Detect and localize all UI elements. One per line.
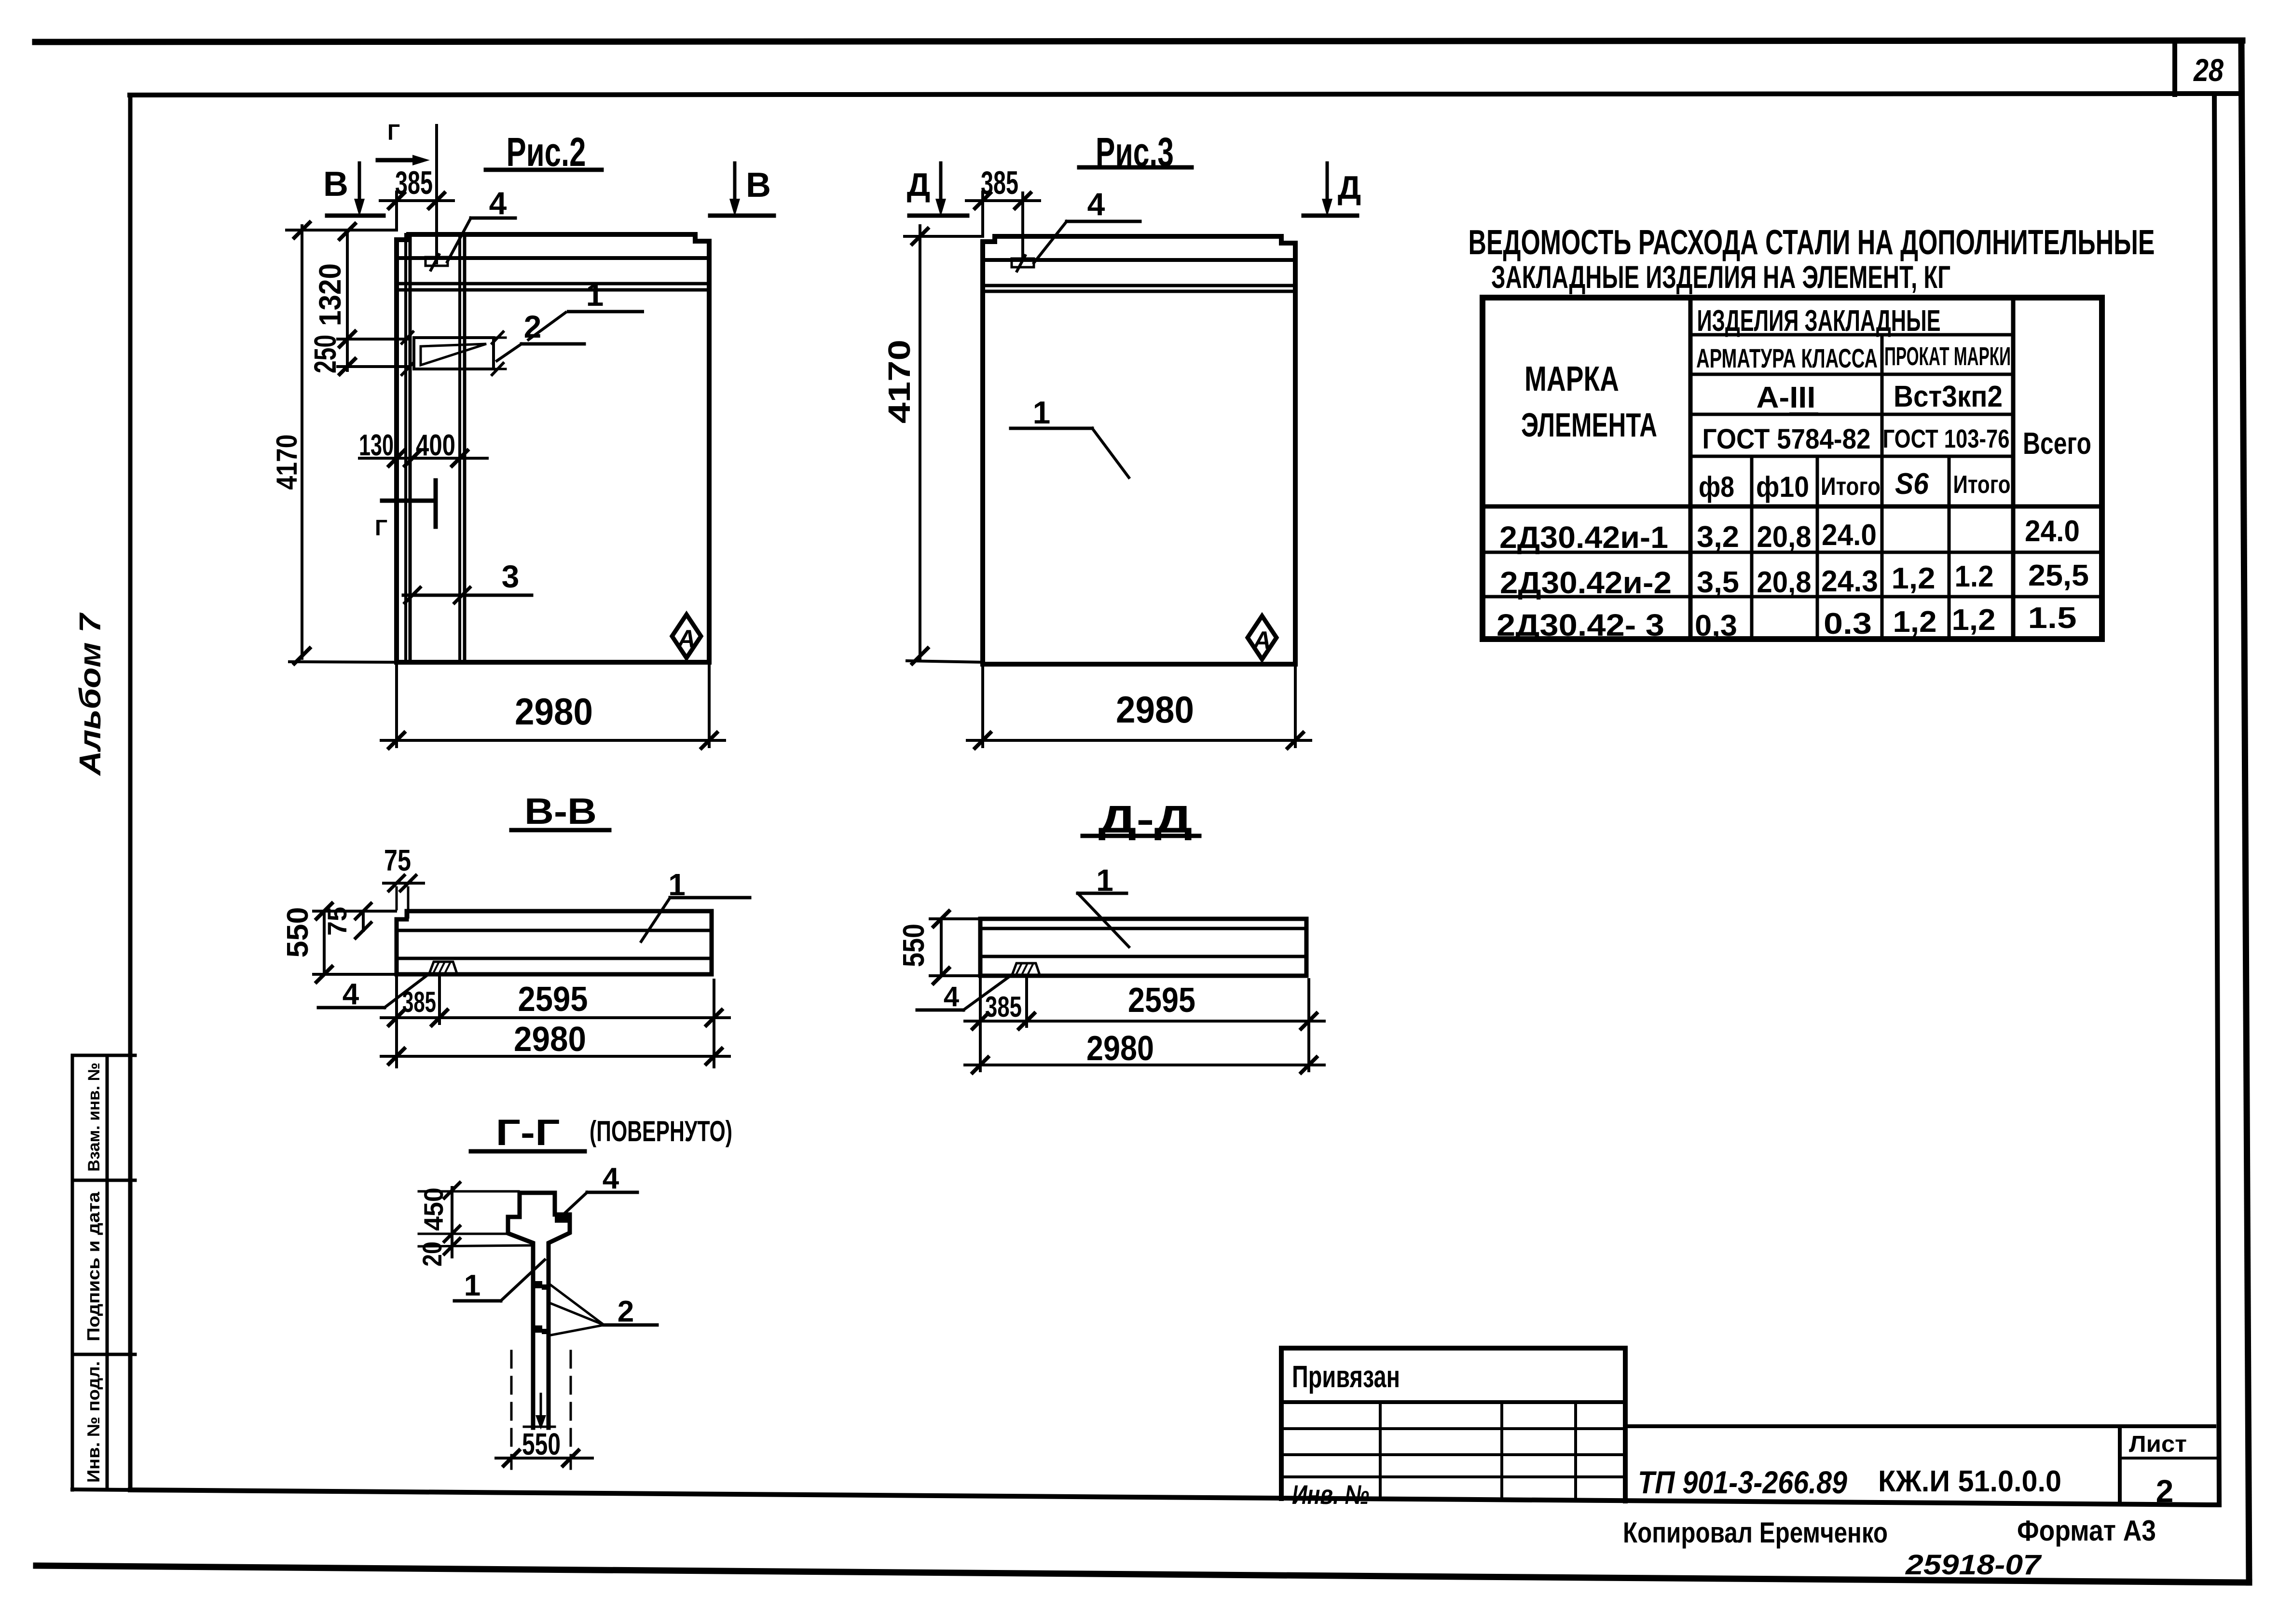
- section mark D right arrowhead: [1322, 199, 1332, 217]
- svg-text:Формат А3: Формат А3: [2017, 1515, 2156, 1547]
- dim 2980 tick right: [701, 733, 717, 748]
- svg-text:Г-Г: Г-Г: [496, 1112, 560, 1153]
- underline of III: [1791, 412, 1817, 415]
- svg-text:1.5: 1.5: [2028, 601, 2077, 635]
- svg-text:385: 385: [402, 986, 436, 1018]
- svg-text:1: 1: [464, 1269, 481, 1302]
- svg-text:1: 1: [668, 867, 686, 902]
- svg-text:3,2: 3,2: [1697, 520, 1739, 554]
- label 4 leader G-G: [559, 1192, 587, 1219]
- weld hatch 2: [439, 963, 444, 972]
- svg-text:Всего: Всего: [2023, 426, 2091, 461]
- stamp row line 3: [1281, 1475, 1625, 1478]
- frame left inner edge: [128, 95, 133, 1490]
- dim 385 extension right (long): [435, 125, 438, 263]
- svg-text:385: 385: [985, 991, 1022, 1023]
- embedded item 2 plate outline: [414, 338, 494, 369]
- dim 2980 extension left Fig.3: [981, 664, 984, 747]
- table vertical: vsego: [2011, 298, 2016, 639]
- dim 75 line B-B: [362, 911, 365, 930]
- label 4 leader D-D: [963, 975, 1011, 1010]
- item 2 tick bottom left: [402, 363, 413, 375]
- label 4 underline G-G: [587, 1191, 637, 1194]
- embedded plate 4 outline: [426, 257, 448, 266]
- weld hatch 2 D-D: [1022, 964, 1027, 974]
- dim 250 tick bottom: [340, 359, 355, 374]
- weld hatch 1 D-D: [1016, 964, 1021, 974]
- svg-text:Д: Д: [1338, 169, 1361, 206]
- sheet top outer border line: [35, 41, 2242, 42]
- svg-text:20: 20: [417, 1242, 447, 1267]
- svg-text:В: В: [746, 166, 771, 205]
- table vertical: armatura/prokat: [1881, 335, 1884, 639]
- dim 550 tick top D-D: [934, 911, 949, 927]
- embedded plate weld B-B: [429, 962, 457, 973]
- side stamp column right line: [106, 1055, 109, 1490]
- dim 75 top extension left: [396, 887, 398, 909]
- section mark G bottom line: [382, 499, 433, 503]
- stamp header line: [1281, 1400, 1625, 1404]
- dim 4170 tick bottom: [294, 648, 310, 664]
- svg-text:25918-07: 25918-07: [1905, 1549, 2042, 1581]
- section profile outline D-D: [980, 919, 1306, 976]
- profile inner line 2 D-D: [980, 955, 1306, 958]
- Fig.3 title underline: [1079, 165, 1192, 170]
- item 2 tick top left: [402, 332, 413, 343]
- svg-text:20,8: 20,8: [1757, 520, 1812, 554]
- dim 4170 extension top: [287, 229, 397, 232]
- B-B title underline: [511, 828, 609, 832]
- dim 4170 extension bottom Fig.3: [907, 661, 983, 662]
- stem bottom arrowhead: [535, 1415, 546, 1430]
- svg-text:550: 550: [522, 1427, 561, 1461]
- dim extension 2558: [419, 1233, 507, 1235]
- dim tick 911 B-B: [432, 1010, 447, 1025]
- table vertical: f10/itogo: [1816, 456, 1819, 639]
- label 1 underline B-B: [670, 896, 750, 900]
- svg-text:ИЗДЕЛИЯ ЗАКЛАДНЫЕ: ИЗДЕЛИЯ ЗАКЛАДНЫЕ: [1697, 304, 1941, 338]
- dim 2980 extension right Fig.3: [1294, 664, 1297, 747]
- dim 550 extension top D-D: [930, 917, 979, 920]
- weld hatch 3 D-D: [1028, 964, 1033, 974]
- svg-text:1,2: 1,2: [1952, 603, 1996, 637]
- list box vertical: [2118, 1426, 2122, 1504]
- svg-text:75: 75: [322, 907, 352, 936]
- label 3 tick 2: [454, 587, 470, 603]
- table row line: data 2: [1483, 595, 2102, 599]
- dim tick 2032 D-D: [973, 1013, 988, 1029]
- dim 4170 extension bottom: [289, 662, 397, 662]
- label 1 underline D-D: [1078, 892, 1126, 895]
- svg-text:(ПОВЕРНУТО): (ПОВЕРНУТО): [590, 1115, 732, 1147]
- dim 75 top line B-B: [384, 882, 424, 885]
- svg-text:4: 4: [343, 978, 359, 1011]
- svg-text:2980: 2980: [515, 690, 593, 733]
- label 1 leader B-B: [641, 898, 670, 942]
- table row line: armatura: [1690, 373, 2013, 376]
- dim 2980 line B-B: [381, 1055, 729, 1058]
- panel outline Fig.3: [983, 236, 1295, 664]
- svg-text:450: 450: [418, 1187, 449, 1231]
- dim 550 extension bottom D-D: [930, 974, 979, 977]
- joint strip vertical 2a: [458, 234, 461, 662]
- dim 4170 extension top Fig.3: [905, 235, 983, 238]
- label 2 leader c: [551, 1325, 604, 1335]
- svg-text:24.0: 24.0: [1822, 519, 1877, 552]
- dim 4170 tick top Fig.3: [912, 229, 928, 244]
- dim 550 tick right G-G: [563, 1450, 578, 1466]
- svg-text:130: 130: [359, 429, 394, 462]
- svg-text:Итого: Итого: [1953, 471, 2011, 499]
- svg-text:Вст3кп2: Вст3кп2: [1894, 380, 2003, 413]
- svg-text:ЗАКЛАДНЫЕ ИЗДЕЛИЯ НА ЭЛЕМЕНТ,: ЗАКЛАДНЫЕ ИЗДЕЛИЯ НА ЭЛЕМЕНТ, КГ: [1491, 259, 1950, 295]
- section mark B left shaft: [358, 163, 361, 205]
- dim 385 extension left: [395, 192, 398, 230]
- sheet bottom outer edge: [36, 1566, 2249, 1583]
- svg-text:Рис.3: Рис.3: [1096, 129, 1174, 175]
- svg-text:1: 1: [586, 277, 604, 313]
- stamp column 1: [1379, 1402, 1382, 1499]
- svg-text:Копировал Еремченко: Копировал Еремченко: [1623, 1516, 1888, 1549]
- svg-text:2Д30.42и-1: 2Д30.42и-1: [1499, 520, 1668, 555]
- embedded plate 4 tick Fig.3: [1017, 256, 1025, 271]
- svg-text:2595: 2595: [518, 980, 588, 1019]
- dim 250 extension top: [338, 338, 408, 341]
- stamp small table top: [1281, 1346, 1625, 1351]
- svg-text:А: А: [1252, 627, 1271, 655]
- anchor mark lower G-G: [534, 1325, 547, 1334]
- table row line: class: [1690, 413, 2013, 416]
- item 2 tick top right: [492, 332, 503, 343]
- svg-text:1: 1: [1033, 395, 1051, 430]
- table row line: header bottom: [1483, 505, 2102, 509]
- title strip top line: [1625, 1424, 2214, 1428]
- svg-text:Подпись и дата: Подпись и дата: [83, 1191, 103, 1341]
- svg-text:20,8: 20,8: [1757, 566, 1812, 599]
- svg-text:ф10: ф10: [1756, 471, 1809, 503]
- svg-text:2980: 2980: [1116, 688, 1194, 731]
- stamp column 3: [1574, 1402, 1577, 1500]
- frame right outer edge: [2241, 41, 2249, 1583]
- dim 1320 tick bottom: [340, 331, 355, 347]
- label 1 underline G-G: [454, 1299, 501, 1303]
- dim 385 tick right Fig.3: [1015, 193, 1030, 208]
- side stamp column left line: [71, 1055, 74, 1490]
- dim 550 tick bottom D-D: [934, 968, 949, 983]
- svg-text:В: В: [323, 165, 348, 204]
- quality diamond Fig.3: [1248, 616, 1277, 659]
- stem bottom arrow shaft: [540, 1394, 542, 1420]
- dim tick 2558: [444, 1226, 460, 1242]
- svg-text:ф8: ф8: [1699, 471, 1734, 503]
- svg-text:Инв. №: Инв. №: [1292, 1479, 1369, 1510]
- dim 1320/250 line: [346, 230, 349, 370]
- section mark G top line: [378, 158, 412, 163]
- svg-text:75: 75: [384, 844, 411, 877]
- dim 450/20 line G-G: [451, 1187, 453, 1257]
- label 2 leader: [497, 344, 522, 361]
- side stamp bottom line: [72, 1489, 131, 1490]
- svg-text:А: А: [676, 625, 696, 653]
- dim 75 top extension right: [407, 887, 410, 917]
- svg-text:550: 550: [897, 924, 931, 967]
- dim 550 tick bottom B-B: [316, 967, 332, 982]
- svg-text:2: 2: [2156, 1473, 2174, 1509]
- embedded item 2 inner wedge: [421, 344, 486, 365]
- dim 2980 line Fig.3: [967, 739, 1311, 742]
- joint strip vertical 2b: [463, 234, 467, 662]
- svg-text:ПРОКАТ МАРКИ: ПРОКАТ МАРКИ: [1884, 342, 2011, 371]
- svg-text:ГОСТ 103-76: ГОСТ 103-76: [1883, 424, 2010, 453]
- panel top band line 3: [397, 288, 709, 292]
- frame right inner edge: [2214, 94, 2219, 1505]
- panel outline Fig.2: [397, 234, 709, 662]
- dim 550 extension bottom B-B: [314, 973, 396, 976]
- embedded plate 4 outline Fig.3: [1012, 259, 1034, 267]
- section mark B left base line: [327, 214, 384, 218]
- label 4 leader Fig.3: [1034, 221, 1067, 263]
- dim 2980 tick left: [389, 733, 404, 748]
- section mark B right base line: [710, 214, 774, 218]
- svg-text:24.3: 24.3: [1821, 565, 1878, 598]
- stamp row line 2: [1281, 1453, 1625, 1456]
- label 1 leader Fig.3: [1092, 428, 1129, 478]
- dim 2980 tick left D-D: [973, 1057, 988, 1073]
- svg-text:2: 2: [524, 309, 542, 344]
- section mark B left arrowhead: [354, 199, 365, 217]
- svg-text:ВЕДОМОСТЬ РАСХОДА СТАЛИ НА ДОП: ВЕДОМОСТЬ РАСХОДА СТАЛИ НА ДОПОЛНИТЕЛЬНЫ…: [1469, 223, 2155, 262]
- stamp small table right: [1623, 1348, 1628, 1501]
- svg-text:КЖ.И 51.0.0.0: КЖ.И 51.0.0.0: [1878, 1465, 2061, 1498]
- item 2 extension top: [494, 337, 506, 339]
- dim 550 line bottom G-G: [496, 1457, 592, 1460]
- dim 2980 tick right D-D: [1301, 1057, 1317, 1073]
- dim 385 tick left Fig.3: [975, 193, 990, 208]
- frame bottom inner line: [130, 1490, 2218, 1505]
- panel top band line 3 Fig.3: [983, 290, 1295, 293]
- svg-text:385: 385: [981, 164, 1018, 201]
- table row line: gost: [1690, 455, 2013, 458]
- svg-text:2Д30.42- 3: 2Д30.42- 3: [1496, 608, 1664, 642]
- dim tick 2713 D-D: [1301, 1013, 1317, 1029]
- page number box divider: [2172, 41, 2177, 95]
- svg-text:4: 4: [944, 981, 959, 1012]
- dim 550 extension top B-B: [314, 910, 396, 913]
- svg-text:3,5: 3,5: [1697, 566, 1739, 599]
- section profile outline B-B: [397, 911, 712, 974]
- svg-text:Г: Г: [375, 515, 387, 540]
- weld hatch 1: [434, 963, 439, 972]
- svg-text:4170: 4170: [271, 435, 303, 490]
- left extension line D-D: [979, 976, 982, 1071]
- dim 550 line D-D: [940, 919, 943, 976]
- svg-text:Рис.2: Рис.2: [507, 129, 586, 175]
- list box divider: [2120, 1457, 2215, 1460]
- section mark D right shaft: [1326, 163, 1329, 205]
- dim tick 2584: [444, 1239, 460, 1254]
- svg-text:Альбом 7: Альбом 7: [74, 613, 107, 777]
- left extension line B-B: [395, 974, 398, 1067]
- table outer border: [1483, 298, 2102, 639]
- panel top band line 2 Fig.3: [983, 284, 1295, 287]
- profile inner line 2 B-B: [397, 957, 712, 960]
- dim 385 tick left: [389, 193, 404, 208]
- dim tick 2468: [444, 1183, 460, 1198]
- section mark D right base line: [1304, 214, 1357, 218]
- label 2 underline: [522, 342, 584, 346]
- svg-text:Итого: Итого: [1821, 473, 1881, 501]
- label 4 leader: [447, 218, 471, 262]
- label 1 leader G-G: [501, 1260, 545, 1301]
- side stamp divider 1: [72, 1179, 135, 1182]
- svg-text:4: 4: [489, 185, 507, 221]
- side stamp divider 2: [72, 1353, 135, 1356]
- label 4 underline Fig.3: [1067, 220, 1140, 223]
- svg-text:4170: 4170: [882, 340, 917, 423]
- item 2 extension bottom: [494, 368, 506, 370]
- rib cross-section outline G-G: [508, 1193, 570, 1428]
- dim 1320 tick top: [340, 224, 355, 239]
- label 4 underline D-D: [917, 1009, 963, 1012]
- dim 75 tick top B-B: [356, 903, 371, 919]
- panel top band line 1 Fig.3: [983, 258, 1295, 262]
- right extension line B-B: [713, 980, 715, 1067]
- D-D title underline: [1083, 834, 1199, 838]
- svg-text:250: 250: [308, 335, 343, 373]
- label 1 leader Fig.2: [527, 312, 567, 341]
- svg-text:ТП 901-3-266.89: ТП 901-3-266.89: [1638, 1464, 1847, 1500]
- dim 130 tick right: [405, 450, 420, 466]
- label 4 underline B-B: [318, 1006, 384, 1010]
- G-G title underline: [471, 1149, 585, 1154]
- dim 4170 tick top: [294, 222, 310, 238]
- label 4 leader B-B: [384, 974, 428, 1008]
- label 1 underline Fig.3: [1011, 427, 1092, 430]
- dim 385 tick right: [429, 193, 444, 208]
- svg-text:Д: Д: [907, 166, 930, 203]
- svg-text:2: 2: [618, 1295, 634, 1328]
- svg-text:550: 550: [281, 907, 315, 958]
- label 1 underline Fig.2: [567, 310, 644, 314]
- quality diamond Fig.2: [672, 614, 701, 658]
- right extension line D-D: [1307, 980, 1310, 1071]
- embedded plate weld D-D: [1012, 963, 1040, 975]
- svg-text:А-III: А-III: [1757, 381, 1816, 414]
- section mark B right arrowhead: [729, 199, 740, 217]
- section mark B right shaft: [733, 163, 737, 205]
- stamp small table left: [1279, 1348, 1284, 1499]
- dim tick 2128 D-D: [1019, 1013, 1034, 1029]
- anchor mark upper G-G: [534, 1281, 547, 1290]
- svg-text:0,3: 0,3: [1695, 609, 1737, 642]
- svg-text:МАРКА: МАРКА: [1524, 360, 1619, 398]
- svg-text:25,5: 25,5: [2028, 559, 2089, 592]
- dim 2980 line D-D: [965, 1064, 1324, 1066]
- svg-text:2980: 2980: [514, 1020, 586, 1059]
- dim 2980 line: [381, 739, 725, 742]
- Fig.2 title underline: [486, 168, 602, 172]
- svg-text:1.2: 1.2: [1955, 560, 1994, 593]
- table vertical: mark column: [1689, 298, 1693, 639]
- dim 385 line: [380, 199, 453, 202]
- stem bottom bar: [524, 1426, 555, 1428]
- profile inner line 1 B-B: [397, 929, 712, 932]
- label 3 tick 1: [405, 587, 420, 603]
- dim extension 2584: [419, 1245, 532, 1246]
- svg-text:28: 28: [2193, 52, 2224, 88]
- label 1 leader D-D: [1078, 893, 1129, 947]
- svg-text:ЭЛЕМЕНТА: ЭЛЕМЕНТА: [1521, 406, 1657, 444]
- dim 550 tick left G-G: [504, 1450, 519, 1466]
- dim extension 2470: [419, 1190, 519, 1193]
- table row line: izdeliya: [1690, 333, 2013, 337]
- dim 2980 extension left: [395, 662, 398, 747]
- stamp column 2: [1500, 1402, 1503, 1500]
- dim 385 extension D-D: [1025, 976, 1028, 1026]
- svg-text:0.3: 0.3: [1824, 607, 1872, 641]
- label 2 leader a: [548, 1283, 604, 1325]
- section mark G bottom bar: [434, 480, 438, 527]
- stem crossing line 1: [533, 1286, 549, 1288]
- panel top band line 1: [397, 256, 709, 260]
- dim 385/2595 line B-B: [381, 1016, 729, 1019]
- dim 550 line B-B: [323, 911, 326, 974]
- item 2 tick bottom right: [492, 363, 503, 375]
- label 2 leader b: [548, 1302, 604, 1325]
- dim 385 extension right Fig.3: [1021, 193, 1024, 260]
- dim 550 tick top B-B: [316, 903, 332, 919]
- svg-text:2595: 2595: [1128, 981, 1195, 1020]
- embedded plate notch (filled) G-G: [555, 1215, 570, 1223]
- dim 2980 tick right Fig.3: [1288, 733, 1303, 748]
- dim tick 1480 B-B: [706, 1010, 722, 1025]
- dim 250 extension bottom: [338, 365, 408, 368]
- svg-text:3: 3: [502, 559, 520, 594]
- dim 130/400 line: [359, 457, 487, 460]
- section mark D left base line: [909, 214, 967, 218]
- profile inner line 1 D-D: [980, 927, 1306, 930]
- side stamp top line: [72, 1054, 135, 1057]
- dim 385/2595 line D-D: [965, 1020, 1324, 1023]
- dim 550 extension left (dashed): [510, 1351, 513, 1469]
- dim 4170 tick bottom Fig.3: [912, 648, 928, 664]
- weld hatch 3: [445, 963, 450, 972]
- svg-text:Привязан: Привязан: [1292, 1359, 1400, 1394]
- embedded plate 4 tick: [431, 255, 439, 270]
- dim 4170 line: [301, 226, 303, 658]
- dim 75 top tick right: [400, 875, 416, 891]
- svg-text:ГОСТ 5784-82: ГОСТ 5784-82: [1702, 423, 1871, 455]
- svg-text:Инв. № подл.: Инв. № подл.: [83, 1361, 103, 1483]
- dim 4170 line Fig.3: [919, 226, 921, 660]
- svg-text:Взам. инв. №: Взам. инв. №: [85, 1063, 103, 1172]
- svg-text:4: 4: [603, 1162, 619, 1195]
- dim tick 822 B-B: [389, 1010, 404, 1025]
- svg-text:1: 1: [1096, 863, 1113, 898]
- table vertical: f8/f10: [1750, 456, 1754, 639]
- dim 75 top tick left: [389, 875, 404, 891]
- svg-text:S6: S6: [1895, 467, 1929, 501]
- svg-text:2980: 2980: [1086, 1029, 1154, 1068]
- svg-text:Д-Д: Д-Д: [1098, 798, 1193, 841]
- dim 2980 tick left Fig.3: [975, 733, 990, 748]
- svg-text:1320: 1320: [313, 263, 347, 326]
- dim 385 extension left Fig.3: [981, 192, 984, 236]
- svg-text:Лист: Лист: [2129, 1432, 2187, 1457]
- svg-text:1,2: 1,2: [1892, 562, 1936, 595]
- dim 2980 extension right: [708, 662, 711, 747]
- dim 130 tick left: [389, 450, 404, 466]
